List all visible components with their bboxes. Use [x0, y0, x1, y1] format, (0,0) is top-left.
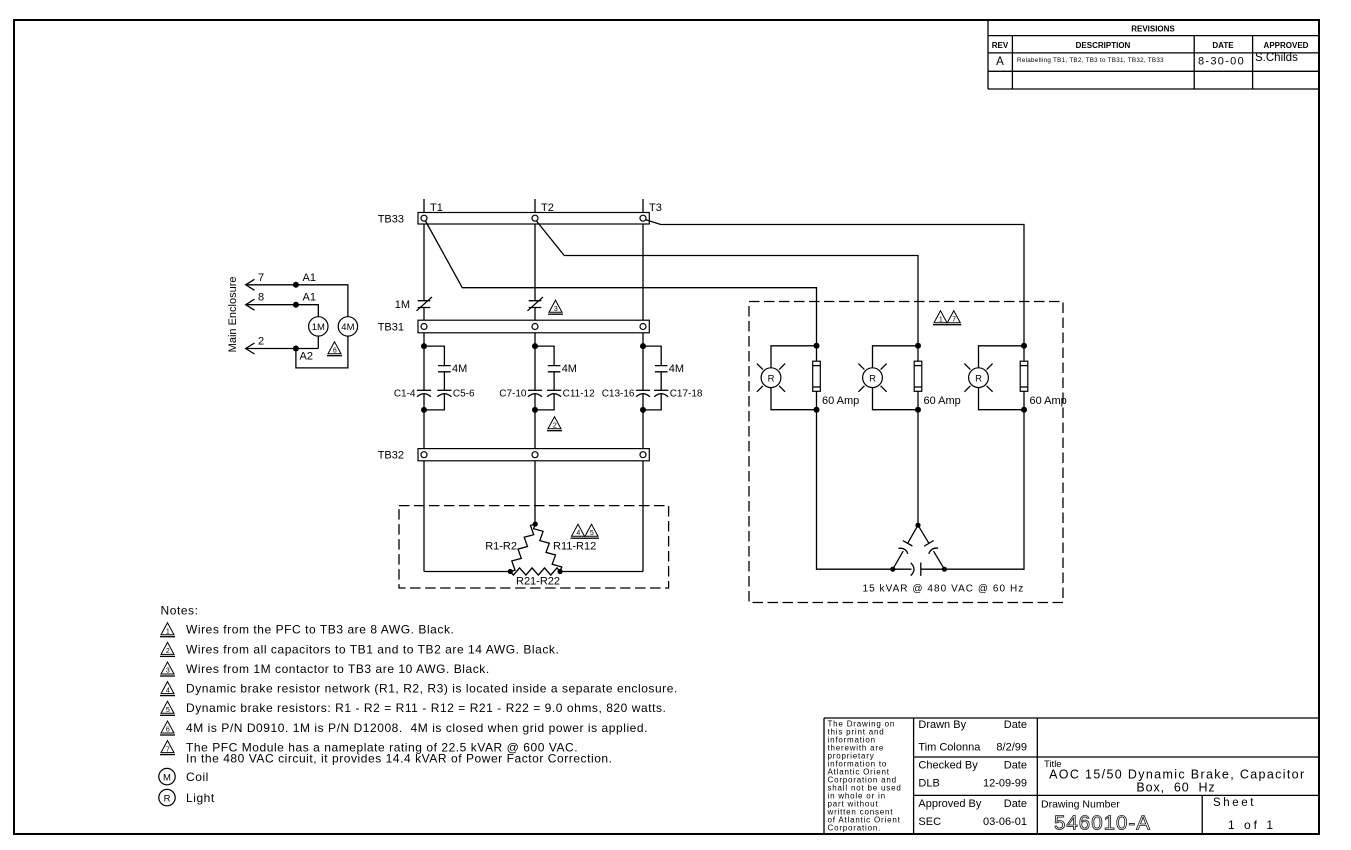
svg-text:Checked By: Checked By — [918, 760, 978, 772]
svg-text:S.Childs: S.Childs — [1255, 52, 1298, 64]
svg-text:A: A — [996, 56, 1004, 68]
wire T3 to resistor network — [560, 571, 643, 573]
svg-text:7: 7 — [258, 272, 264, 284]
junction node delta top — [533, 522, 538, 527]
svg-text:Sheet: Sheet — [1213, 797, 1256, 809]
capacitor C13-16 — [602, 388, 650, 399]
svg-text:C17-18: C17-18 — [670, 388, 703, 399]
svg-text:5: 5 — [590, 530, 594, 537]
svg-text:Wires from the PFC to TB3 are: Wires from the PFC to TB3 are 8 AWG. Bla… — [186, 623, 454, 637]
coil 1M — [309, 317, 328, 336]
svg-text:R: R — [869, 374, 876, 385]
capacitor delta left side — [893, 525, 918, 569]
junction node delta cap left — [890, 567, 895, 572]
svg-text:5: 5 — [166, 707, 170, 714]
junction node delta left — [508, 569, 513, 574]
junction node phase3 top — [640, 343, 646, 349]
svg-text:8/2/99: 8/2/99 — [996, 742, 1027, 754]
note marker 1 — [160, 623, 175, 637]
fuse phase 3, 60 Amp — [1020, 346, 1067, 410]
svg-text:546010-A: 546010-A — [1054, 812, 1151, 835]
svg-text:6: 6 — [333, 347, 337, 354]
svg-text:Wires from 1M contactor to TB3: Wires from 1M contactor to TB3 are 10 AW… — [186, 662, 490, 676]
wire phase 2 down — [917, 410, 919, 526]
svg-text:APPROVED: APPROVED — [1264, 41, 1309, 50]
svg-text:R11-R12: R11-R12 — [553, 541, 596, 553]
contact 1M phase T1 — [395, 297, 432, 311]
junction node phase2 top — [532, 343, 538, 349]
svg-text:TB33: TB33 — [378, 213, 404, 225]
node A1 (1M coil) — [293, 292, 316, 308]
terminal block TB31 — [378, 320, 650, 333]
wire phase 1 down — [817, 410, 893, 570]
terminal block TB33 — [378, 213, 650, 226]
terminal block TB32 — [378, 449, 650, 462]
note marker 2 (at capacitors) — [547, 417, 562, 431]
svg-text:C7-10: C7-10 — [499, 388, 527, 399]
svg-text:3: 3 — [166, 668, 170, 675]
svg-text:A1: A1 — [303, 272, 316, 284]
note marker 5 (at resistors) — [584, 524, 599, 538]
svg-text:Corporation.: Corporation. — [828, 824, 882, 833]
note 7 text — [186, 741, 613, 766]
phase 2: junction node bottom — [915, 407, 921, 413]
wire 7 (to 4M coil A1) — [246, 272, 348, 317]
capacitor C11-12 — [547, 388, 595, 399]
svg-text:C13-16: C13-16 — [602, 388, 635, 399]
contact 1M phase T2 — [528, 297, 544, 311]
svg-text:8: 8 — [258, 292, 264, 304]
junction node delta cap right — [942, 567, 947, 572]
svg-text:60 Amp: 60 Amp — [1030, 395, 1067, 407]
wire 8 (to 1M coil A1) — [246, 292, 319, 317]
lamp R phase 1 — [757, 346, 817, 410]
svg-text:DESCRIPTION: DESCRIPTION — [1076, 41, 1131, 50]
wire branch phase3 — [643, 346, 661, 410]
lamp R phase 3 — [964, 346, 1024, 410]
svg-text:Box, 60 Hz: Box, 60 Hz — [1136, 781, 1215, 795]
svg-text:A1: A1 — [303, 292, 316, 304]
svg-text:AOC 15/50 Dynamic Brake, Capac: AOC 15/50 Dynamic Brake, Capacitor — [1049, 768, 1305, 782]
svg-text:C5-6: C5-6 — [453, 388, 475, 399]
svg-text:Dynamic brake resistor network: Dynamic brake resistor network (R1, R2, … — [186, 682, 678, 696]
wire phase 3 down — [944, 410, 1024, 570]
notes — [161, 604, 199, 618]
wire T3 vertical — [642, 199, 644, 572]
svg-text:4M: 4M — [669, 363, 684, 375]
svg-text:1: 1 — [939, 316, 943, 323]
svg-text:Date: Date — [1004, 760, 1027, 772]
wire T1 to resistor network — [424, 571, 510, 573]
svg-text:Drawing Number: Drawing Number — [1041, 799, 1120, 811]
capacitor delta bottom side — [893, 563, 945, 576]
svg-text:2: 2 — [166, 648, 170, 655]
junction node delta right — [558, 569, 563, 574]
wire A2 to 4M coil bottom — [296, 336, 348, 368]
legend symbol M = Coil — [159, 768, 209, 784]
svg-text:TB31: TB31 — [378, 321, 404, 333]
svg-text:Dynamic brake resistors: R1 -: Dynamic brake resistors: R1 - R2 = R11 -… — [186, 701, 666, 715]
svg-text:DLB: DLB — [918, 778, 939, 790]
junction node phase1 bottom — [421, 407, 427, 413]
svg-text:DATE: DATE — [1212, 41, 1234, 50]
svg-text:R: R — [164, 794, 171, 805]
junction node phase2 bottom — [532, 407, 538, 413]
svg-text:T3: T3 — [649, 202, 662, 214]
svg-text:Main Enclosure: Main Enclosure — [227, 276, 239, 352]
svg-text:TB32: TB32 — [378, 450, 404, 462]
wire T2 vertical — [534, 199, 536, 524]
svg-text:4M: 4M — [562, 363, 577, 375]
svg-text:03-06-01: 03-06-01 — [983, 816, 1027, 828]
PFC module enclosure (dashed) — [749, 302, 1063, 603]
svg-text:R: R — [975, 374, 982, 385]
svg-text:60 Amp: 60 Amp — [924, 395, 961, 407]
contact 4M phase1 — [438, 363, 467, 375]
svg-text:R: R — [768, 374, 775, 385]
node A1 (4M coil) — [293, 272, 316, 288]
note marker 4 — [160, 682, 175, 696]
svg-text:4M: 4M — [341, 322, 354, 333]
svg-text:1M: 1M — [395, 299, 410, 311]
svg-text:REV: REV — [992, 41, 1009, 50]
phase 1: junction node bottom — [814, 407, 820, 413]
junction node phase1 top — [421, 343, 427, 349]
svg-text:4M: 4M — [452, 363, 467, 375]
svg-text:Tim Colonna: Tim Colonna — [918, 742, 981, 754]
wire branch phase2 — [535, 346, 554, 410]
svg-text:8-30-00: 8-30-00 — [1198, 56, 1245, 68]
junction node delta cap top — [915, 523, 920, 528]
svg-text:60 Amp: 60 Amp — [822, 395, 859, 407]
svg-text:M: M — [163, 773, 171, 784]
svg-text:1: 1 — [166, 628, 170, 635]
node A2 — [293, 346, 313, 363]
svg-text:Wires from all capacitors to T: Wires from all capacitors to TB1 and to … — [186, 642, 559, 656]
svg-text:1M: 1M — [312, 322, 325, 333]
resistor R11-R12 — [534, 524, 597, 571]
note marker 3 (at contact) — [548, 300, 563, 314]
svg-text:C1-4: C1-4 — [394, 388, 416, 399]
svg-text:R1-R2: R1-R2 — [485, 541, 517, 553]
brake resistor enclosure (dashed) — [399, 506, 669, 588]
svg-text:2: 2 — [553, 422, 557, 429]
svg-text:1 of 1: 1 of 1 — [1228, 818, 1276, 832]
svg-text:3: 3 — [554, 306, 558, 313]
wire TB33 T1 to PFC phase 1 — [426, 221, 817, 346]
svg-text:In the 480 VAC circuit, it pro: In the 480 VAC circuit, it provides 14.4… — [186, 752, 613, 766]
note marker 1 (PFC) — [933, 311, 948, 325]
lamp R phase 2 — [858, 346, 918, 410]
capacitor C17-18 — [654, 388, 703, 399]
wire T1 vertical — [423, 199, 425, 572]
contact 4M phase2 — [548, 363, 577, 375]
svg-text:REVISIONS: REVISIONS — [1131, 25, 1175, 34]
note marker 2 — [160, 642, 175, 656]
svg-text:7: 7 — [166, 746, 170, 753]
capacitor delta right side — [918, 525, 944, 569]
svg-text:Date: Date — [1004, 798, 1027, 810]
svg-text:Coil: Coil — [186, 770, 209, 784]
revisions table — [988, 21, 1319, 90]
svg-text:4M is P/N D0910. 1M is P/N D12: 4M is P/N D0910. 1M is P/N D12008. 4M is… — [186, 721, 648, 735]
svg-text:A2: A2 — [300, 351, 313, 363]
wire TB33 T3 to PFC phase 3 — [645, 220, 1024, 346]
svg-text:SEC: SEC — [918, 816, 941, 828]
resistor R21-R22 — [510, 568, 560, 588]
fuse phase 1, 60 Amp — [813, 346, 860, 410]
svg-text:Approved By: Approved By — [918, 798, 981, 810]
capacitor C1-4 — [394, 388, 431, 399]
svg-text:Drawn By: Drawn By — [918, 719, 966, 731]
svg-text:C11-12: C11-12 — [563, 388, 595, 399]
phase 1: junction node top — [814, 343, 820, 349]
resistor R1-R2 — [485, 524, 535, 571]
svg-text:R21-R22: R21-R22 — [516, 576, 560, 588]
svg-text:Date: Date — [1004, 719, 1027, 731]
svg-text:6: 6 — [166, 727, 170, 734]
svg-text:4: 4 — [166, 687, 170, 694]
title block — [824, 718, 1319, 835]
note marker 5 — [160, 701, 175, 715]
svg-text:7: 7 — [952, 316, 956, 323]
svg-text:2: 2 — [258, 336, 264, 348]
svg-text:Light: Light — [186, 791, 215, 805]
phase 3: junction node top — [1021, 343, 1027, 349]
note marker 4 (at resistors) — [571, 524, 586, 538]
wire 2 (A2 return) — [246, 336, 319, 355]
coil 4M — [338, 317, 357, 336]
capacitor C5-6 — [437, 388, 475, 399]
junction node phase3 bottom — [640, 407, 646, 413]
note marker 6 — [160, 721, 175, 735]
fuse phase 2, 60 Amp — [914, 346, 961, 410]
note marker 7 (PFC) — [946, 311, 961, 325]
contact 4M phase3 — [655, 363, 684, 375]
phase 2: junction node top — [915, 343, 921, 349]
svg-text:12-09-99: 12-09-99 — [983, 778, 1027, 790]
svg-text:Notes:: Notes: — [161, 604, 199, 618]
note marker 6 (at coils) — [327, 342, 342, 356]
capacitor C7-10 — [499, 388, 542, 399]
svg-text:Relabelling TB1, TB2, TB3 to T: Relabelling TB1, TB2, TB3 to TB31, TB32,… — [1017, 57, 1164, 64]
svg-text:15 kVAR @ 480 VAC @ 60 Hz: 15 kVAR @ 480 VAC @ 60 Hz — [863, 584, 1025, 595]
phase 3: junction node bottom — [1021, 407, 1027, 413]
note marker 7 — [160, 741, 175, 755]
wire branch phase1 — [424, 346, 444, 410]
svg-text:4: 4 — [576, 530, 580, 537]
note marker 3 — [160, 662, 175, 676]
wire TB33 T2 to PFC phase 2 — [537, 221, 919, 346]
legend symbol R = Light — [159, 789, 215, 805]
